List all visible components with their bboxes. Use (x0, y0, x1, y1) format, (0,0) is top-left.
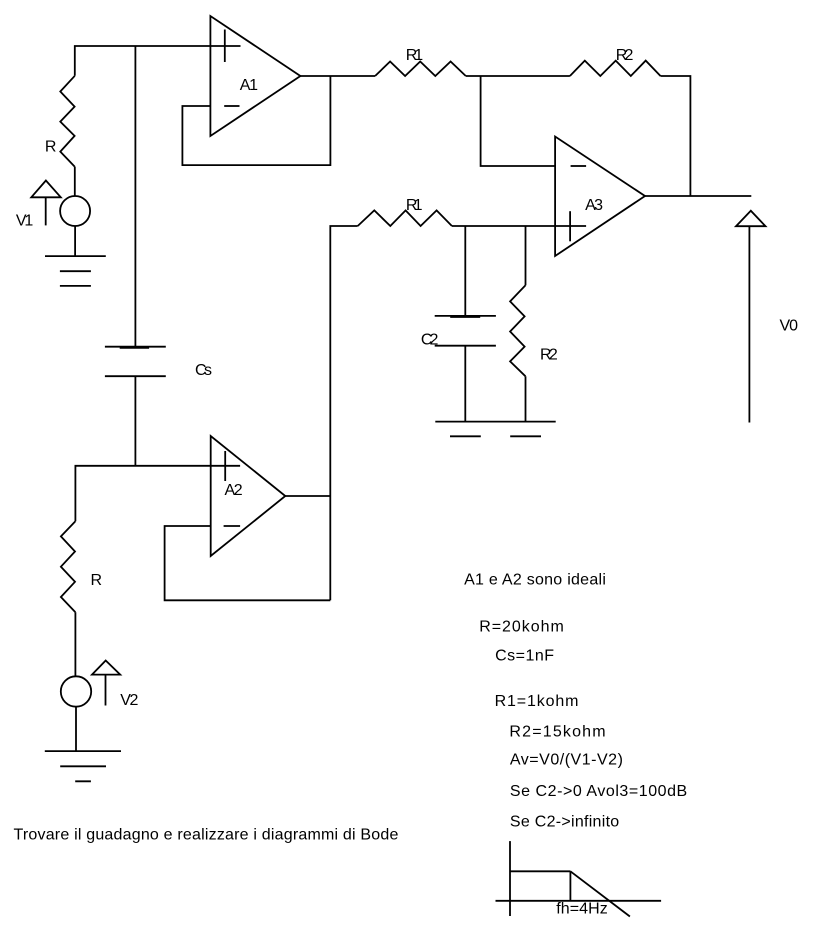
svg-text:R: R (91, 572, 103, 589)
svg-text:R=20kohm: R=20kohm (479, 619, 564, 636)
svg-text:A2: A2 (225, 482, 243, 499)
svg-text:V2: V2 (120, 692, 138, 709)
resistor R1 (top) (375, 62, 466, 77)
wire A3 output (645, 195, 751, 197)
svg-text:A1: A1 (240, 77, 258, 94)
svg-text:Se C2->infinito: Se C2->infinito (510, 814, 619, 831)
svg-text:Cs: Cs (195, 362, 212, 379)
svg-text:R2=15kohm: R2=15kohm (509, 723, 605, 740)
wire A2 minus input (165, 526, 331, 600)
bode plot x axis (496, 900, 662, 902)
wire A2 output riser to R1 lower (330, 226, 357, 600)
wire A2 output (285, 495, 330, 497)
svg-text:A3: A3 (585, 197, 603, 214)
bode plot y axis (509, 841, 511, 916)
op-amp A1 (210, 16, 300, 136)
node wire junction to Cs (134, 46, 136, 347)
source V2 (61, 676, 91, 706)
A3 minus symbol (571, 165, 587, 167)
bode plot rolloff slope (570, 871, 630, 916)
svg-text:Se C2->0 Avol3=100dB: Se C2->0 Avol3=100dB (510, 783, 687, 800)
svg-text:R: R (45, 139, 57, 156)
node wire down to A3 minus (481, 76, 555, 166)
wire V1 to ground (74, 226, 76, 256)
ground (below V2) (45, 751, 121, 781)
A3 plus symbol (569, 211, 571, 241)
capacitor C2 (435, 316, 496, 346)
svg-text:R1: R1 (406, 197, 423, 214)
op-amp A2 (211, 436, 286, 556)
wire A2 plus input (75, 466, 240, 521)
arrow V2 (105, 675, 107, 706)
bode plot fh marker (569, 871, 571, 901)
ground (below C2 and R2) (435, 422, 555, 437)
svg-text:R2: R2 (616, 47, 634, 64)
svg-text:C2: C2 (421, 332, 439, 349)
svg-text:R2: R2 (540, 346, 558, 363)
svg-text:R1: R1 (406, 47, 423, 64)
wire Cs to A2 plus net (134, 376, 136, 466)
capacitor Cs (105, 347, 166, 377)
node wire down to R2 vertical (525, 226, 527, 285)
wire top input net V1 to A1 plus (75, 46, 241, 76)
svg-text:Trovare il guadagno e realizza: Trovare il guadagno e realizzare i diagr… (14, 827, 399, 844)
wire R2 to A3 output node (661, 76, 691, 196)
svg-text:A1 e A2 sono ideali: A1 e A2 sono ideali (464, 572, 606, 589)
source V1 (60, 196, 90, 226)
node wire down to C2 (464, 226, 466, 316)
arrow V1 (45, 197, 47, 225)
resistor R2 (top) (570, 61, 661, 76)
svg-text:V0: V0 (780, 318, 799, 335)
resistor R2 (vertical) (510, 285, 525, 376)
ground (below V1) (45, 256, 106, 286)
resistor R (top left) (60, 76, 75, 167)
wire R1 to R2 (466, 75, 570, 77)
A2 plus symbol (224, 451, 226, 481)
wire R to V1 (74, 167, 76, 197)
A1 plus symbol (224, 30, 226, 63)
svg-text:V1: V1 (16, 212, 33, 229)
svg-text:Cs=1nF: Cs=1nF (495, 647, 554, 664)
wire R to V2 (74, 612, 76, 676)
op-amp A3 (555, 137, 645, 257)
arrow V0 (748, 226, 750, 422)
bode plot flat response (510, 870, 570, 872)
wire C2 to ground (464, 346, 466, 422)
svg-text:R1=1kohm: R1=1kohm (495, 693, 579, 710)
svg-text:fh=4Hz: fh=4Hz (556, 901, 607, 918)
wire R2 to ground (525, 376, 527, 421)
wire R1 lower to A3 plus (452, 225, 586, 227)
wire A1 minus input (182, 76, 330, 165)
resistor R (lower left) (61, 521, 76, 612)
A1 minus symbol (224, 105, 239, 107)
svg-text:Av=V0/(V1-V2): Av=V0/(V1-V2) (510, 752, 623, 769)
wire A1 output (300, 75, 375, 77)
A2 minus symbol (224, 525, 241, 527)
resistor R1 (lower) (358, 210, 452, 226)
wire V2 to ground (75, 707, 77, 751)
